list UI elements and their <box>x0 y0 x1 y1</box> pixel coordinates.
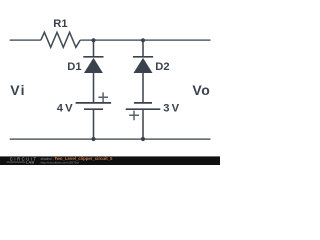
diode D2 triangle <box>134 58 153 73</box>
battery V1 long plate (+) <box>76 102 112 104</box>
wire D2 branch: battery V2 to bottom rail <box>142 109 144 139</box>
node C: junction bottom rail / D1 branch <box>91 137 95 141</box>
battery V2 short plate (-) <box>134 102 152 104</box>
diode D1 cathode bar <box>83 56 103 58</box>
svg-text:R1: R1 <box>53 18 67 30</box>
node B: junction top rail / D2 branch <box>141 38 145 42</box>
wire bottom rail <box>10 138 211 140</box>
resistor R1 <box>41 32 80 47</box>
wire D2 branch: top rail to diode bar <box>142 40 144 56</box>
svg-text:3 V: 3 V <box>163 103 179 115</box>
svg-text:http://circuitlab.com/c9575yf: http://circuitlab.com/c9575yf <box>41 161 79 165</box>
wire top rail left segment <box>10 39 41 41</box>
svg-text:4 V: 4 V <box>57 103 73 115</box>
wire D2 branch: diode to battery V2 <box>142 73 144 103</box>
watermark bar <box>0 156 220 165</box>
diode D1 triangle <box>84 58 103 73</box>
watermark logo underline <box>7 161 26 163</box>
battery V1 plus sign <box>98 92 108 102</box>
node A: junction top rail / D1 branch <box>91 38 95 42</box>
diode D2 cathode bar <box>133 56 153 58</box>
wire top rail right segment <box>80 39 210 41</box>
wire D1 branch: battery V1 to bottom rail <box>93 109 95 139</box>
svg-text:D2: D2 <box>155 61 169 73</box>
node D: junction bottom rail / D2 branch <box>141 137 145 141</box>
wire D1 branch: diode to battery V1 <box>93 73 95 103</box>
wire D1 branch: top rail to diode bar <box>93 40 95 56</box>
battery V2 long plate (+) <box>126 108 161 110</box>
svg-text:Vi: Vi <box>10 82 26 98</box>
svg-text:D1: D1 <box>67 61 81 73</box>
svg-text:Vo: Vo <box>192 82 210 98</box>
battery V1 short plate (-) <box>84 108 103 110</box>
svg-text:LAB: LAB <box>26 160 34 164</box>
battery V2 plus sign <box>129 111 139 121</box>
